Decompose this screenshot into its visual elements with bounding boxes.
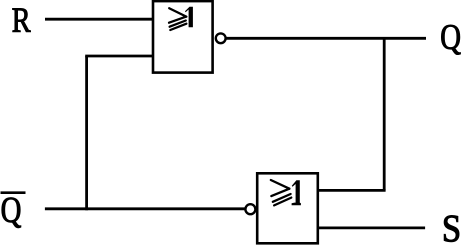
wire feedback Qbar to U1, horizontal xyxy=(85,55,153,58)
or-gate U1 (NOR, top) xyxy=(153,1,213,73)
wire Qbar xyxy=(45,207,245,210)
or-gate U2 (NOR, bottom, mirrored) xyxy=(257,173,318,243)
U1 value 1 xyxy=(185,7,193,27)
bubble U1 output xyxy=(216,33,226,43)
label Qbar overline xyxy=(1,191,26,194)
wire S input xyxy=(318,226,425,229)
wire Q output xyxy=(226,37,426,40)
wire R input xyxy=(45,18,153,21)
wire feedback Q to U2, vertical xyxy=(383,38,386,190)
label R xyxy=(12,9,30,32)
U1 symbol GEQ xyxy=(169,8,186,30)
label S xyxy=(444,216,459,242)
label Q xyxy=(441,25,460,55)
wire feedback Qbar to U1, vertical xyxy=(85,56,88,210)
label Qbar xyxy=(2,198,21,228)
wire feedback Q to U2, horizontal xyxy=(318,189,386,192)
bubble U2 output xyxy=(245,204,255,214)
U2 symbol GEQ xyxy=(271,180,292,205)
U2 value 1 xyxy=(292,180,301,205)
